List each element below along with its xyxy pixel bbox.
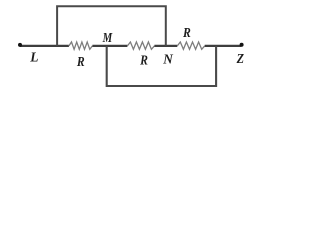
wire: R1 to resistor R2 through node M: [92, 45, 127, 47]
label M: [102, 31, 113, 46]
svg-text:L: L: [29, 50, 38, 65]
svg-text:R: R: [76, 55, 85, 70]
resistor R2 (zigzag): [127, 42, 154, 49]
resistor R3 (zigzag): [177, 42, 204, 49]
svg-text:R: R: [139, 54, 148, 69]
svg-text:Z: Z: [236, 52, 245, 67]
wire: bottom bypass from node M to right of R3: [107, 46, 216, 86]
label R (value of R2): [139, 54, 148, 69]
terminal L (dot): [18, 43, 22, 47]
svg-text:M: M: [102, 31, 113, 46]
terminal Z (dot): [240, 43, 244, 47]
wire: top bypass from left of R1 to node N: [57, 6, 166, 46]
node M (junction): [106, 46, 108, 47]
label L: [29, 50, 38, 65]
label Z: [236, 52, 245, 67]
node N (junction): [165, 45, 167, 46]
svg-text:N: N: [162, 53, 173, 68]
wire: terminal L to resistor R1: [20, 45, 69, 47]
wire: R2 to resistor R3 through node N: [154, 45, 177, 47]
label N: [162, 53, 173, 68]
label R (value of R1): [76, 55, 85, 70]
wire: R3 to terminal Z: [205, 45, 242, 47]
label R (value of R3): [182, 26, 191, 41]
resistor R1 (zigzag): [69, 42, 93, 49]
svg-text:R: R: [182, 26, 191, 41]
